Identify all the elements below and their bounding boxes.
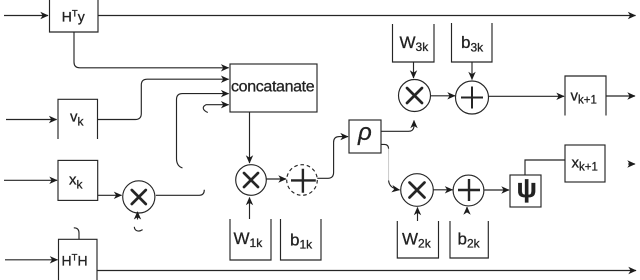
wire input arrow to xk bbox=[4, 179, 57, 181]
block psi bbox=[510, 175, 541, 207]
wire input arrow to HTy bbox=[4, 15, 48, 17]
wire vk output to concatenate input2 bbox=[98, 79, 229, 119]
wire psi top to xk1 box bbox=[525, 160, 565, 175]
block b1k (open top) bbox=[281, 219, 322, 260]
svg-text:HTy: HTy bbox=[62, 9, 85, 25]
wire small hook below M0 bbox=[134, 227, 142, 231]
wire vk1 output arrow right bbox=[606, 95, 635, 97]
wire rho upper output to multiplier M3 bbox=[381, 121, 414, 132]
wire xk output to multiplier M0 bbox=[98, 194, 122, 196]
wire b2k arrowhead into A2 bbox=[466, 207, 468, 213]
wire M2 output to adder A2 bbox=[433, 189, 452, 191]
multiplier M1 X symbol bbox=[244, 173, 258, 187]
adder A3 circle bbox=[456, 81, 489, 114]
wire input arrow to HTH bbox=[5, 259, 58, 261]
multiplier M1 circle bbox=[236, 165, 267, 196]
svg-text:concatanate: concatanate bbox=[231, 79, 315, 96]
svg-text:W2k: W2k bbox=[402, 229, 432, 250]
svg-text:ψ: ψ bbox=[517, 173, 537, 203]
wire A3 output to vk1 box bbox=[489, 95, 565, 97]
wire M1 output to adder A1 bbox=[266, 178, 286, 180]
block xk bbox=[58, 160, 98, 200]
block HTH (cropped at bottom) bbox=[59, 239, 98, 280]
block b2k (open top) bbox=[450, 221, 488, 258]
multiplier M2 X symbol bbox=[410, 183, 425, 198]
wire b3k down arrow into A3 bbox=[471, 62, 473, 80]
wire A1 output up to rho bbox=[317, 137, 348, 179]
wire curved arrow into M2 left bbox=[389, 181, 400, 190]
multiplier M0 circle (xk times HTH) bbox=[123, 181, 155, 213]
wire W2k up arrow into M2 bbox=[417, 208, 419, 222]
svg-text:W1k: W1k bbox=[234, 229, 264, 250]
wire hook on top of HTH bbox=[74, 228, 79, 240]
wire top long line HTy output to right edge bbox=[98, 15, 636, 17]
wire W1k up arrow into M1 bbox=[249, 198, 251, 220]
wire W3k down arrow into M3 bbox=[413, 62, 415, 78]
block concatenate bbox=[230, 64, 317, 112]
adder A2 plus symbol bbox=[458, 179, 480, 201]
wire M0 output with end hook bbox=[156, 190, 205, 196]
svg-text:HTH: HTH bbox=[62, 253, 88, 269]
svg-text:b2k: b2k bbox=[458, 229, 481, 250]
block xk1 bbox=[565, 145, 605, 182]
multiplier M3 circle bbox=[399, 80, 431, 112]
wire xk1 output arrowhead right bbox=[628, 163, 635, 165]
wire hooked tail to concatenate input4 bbox=[203, 105, 228, 113]
multiplier M2 circle bbox=[401, 174, 434, 207]
block HTy bbox=[50, 0, 99, 32]
adder A1 plus symbol bbox=[291, 169, 316, 193]
svg-text:xk: xk bbox=[69, 172, 84, 192]
adder A3 plus symbol bbox=[461, 87, 483, 109]
wire input arrow to vk bbox=[6, 119, 57, 121]
block vk1 (open bottom) bbox=[565, 76, 606, 116]
wire A2 output to psi bbox=[485, 189, 510, 191]
wire faint vertical rho to M2 bbox=[388, 149, 390, 181]
svg-text:ρ: ρ bbox=[357, 119, 372, 146]
block W1k (open top) bbox=[230, 219, 271, 260]
wire hooked riser to concatenate input3 bbox=[177, 94, 229, 168]
wire rho lower output hook bbox=[381, 144, 389, 148]
svg-text:vk+1: vk+1 bbox=[571, 88, 597, 107]
block W2k (open top) bbox=[397, 221, 438, 258]
block W3k (open top) bbox=[393, 24, 435, 62]
svg-text:b1k: b1k bbox=[290, 230, 313, 251]
svg-text:xk+1: xk+1 bbox=[572, 155, 598, 174]
svg-text:b3k: b3k bbox=[461, 33, 484, 55]
multiplier M3 X symbol bbox=[407, 88, 422, 103]
block rho bbox=[349, 120, 381, 153]
block vk (open bottom) bbox=[58, 99, 98, 139]
wire HTy bottom to concatenate input1 bbox=[74, 32, 229, 68]
wire M3 output to adder A3 bbox=[431, 95, 456, 97]
svg-text:vk: vk bbox=[70, 109, 85, 129]
adder A1 circle (dashed) bbox=[287, 165, 318, 196]
block b3k (open top) bbox=[452, 23, 493, 62]
svg-text:W3k: W3k bbox=[400, 33, 430, 54]
wire bottom long line HTH output to right edge bbox=[97, 270, 636, 272]
wire concatenate output down to multiplier M1 bbox=[249, 112, 251, 163]
adder A2 circle bbox=[453, 175, 484, 206]
multiplier M0 X symbol bbox=[132, 190, 146, 204]
wire faint arrow from HTH into M0 bottom bbox=[137, 212, 139, 220]
